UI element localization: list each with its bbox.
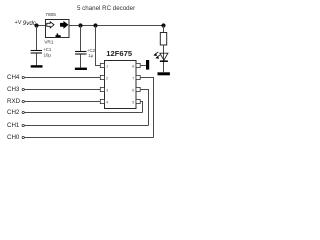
svg-text:CH0: CH0 — [7, 134, 20, 141]
svg-text:+C1: +C1 — [43, 47, 52, 52]
svg-text:1µ: 1µ — [88, 53, 93, 58]
svg-text:10µ: 10µ — [44, 52, 52, 57]
svg-text:VR1: VR1 — [44, 39, 54, 45]
svg-text:CH3: CH3 — [7, 86, 20, 93]
svg-text:RXD: RXD — [7, 98, 21, 105]
svg-text:7805: 7805 — [45, 12, 56, 18]
svg-text:CH4: CH4 — [7, 74, 20, 81]
svg-text:5 chanel RC decoder: 5 chanel RC decoder — [77, 5, 135, 12]
svg-text:12F675: 12F675 — [106, 49, 133, 58]
svg-text:CH2: CH2 — [7, 109, 20, 116]
svg-text:CH1: CH1 — [7, 122, 20, 129]
svg-text:+V: +V — [15, 20, 22, 26]
